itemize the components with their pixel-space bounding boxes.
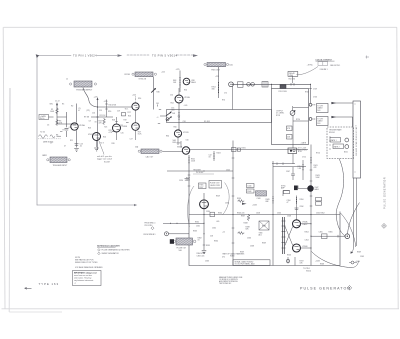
svg-text:C25: C25 <box>121 133 124 135</box>
ground <box>94 148 99 151</box>
connector P380 <box>165 232 169 236</box>
tube V350A <box>293 220 301 228</box>
svg-text:C712: C712 <box>302 157 306 159</box>
wire end tick bottom <box>134 204 137 206</box>
capacitor C365 <box>322 234 328 239</box>
svg-text:R339: R339 <box>262 243 266 245</box>
svg-text:R368: R368 <box>320 264 324 266</box>
svg-text:C15: C15 <box>99 110 102 112</box>
svg-text:C365: C365 <box>319 231 323 233</box>
connector J30 cal out (hatched) <box>50 157 67 163</box>
wire switch A out <box>331 102 353 104</box>
svg-text:PICKOFF: PICKOFF <box>196 172 203 174</box>
capacitor C4 <box>65 112 69 137</box>
svg-text:C333: C333 <box>205 261 209 263</box>
neon B701 <box>288 148 297 154</box>
wire rail to switch <box>310 84 312 103</box>
wire cathode down <box>76 130 78 147</box>
svg-text:R17: R17 <box>128 112 131 114</box>
wire cathodes <box>97 110 136 147</box>
rail x106 <box>106 100 108 118</box>
svg-text:C348: C348 <box>287 216 291 218</box>
tube V334B <box>200 200 209 209</box>
svg-text:C9: C9 <box>50 143 52 145</box>
label box R327 <box>199 183 207 189</box>
connector J50 sync (hatched) <box>135 72 153 77</box>
wire main right rail <box>310 145 312 266</box>
svg-text:+225: +225 <box>215 76 219 78</box>
svg-text:TRIGGER INPUT: TRIGGER INPUT <box>53 165 69 167</box>
svg-text:C384 .005: C384 .005 <box>197 255 205 257</box>
svg-text:C354: C354 <box>305 240 309 242</box>
svg-text:TO CRT: TO CRT <box>317 105 323 107</box>
wire: top feedback run to pin 5 <box>37 55 71 57</box>
resistor R321 on box4 left rail <box>188 157 190 164</box>
svg-text:R68: R68 <box>173 142 176 144</box>
svg-text:C369: C369 <box>360 256 364 258</box>
svg-text:C19: C19 <box>117 111 120 113</box>
wire v347 grid stubs <box>283 191 290 197</box>
resistor R351 column <box>302 160 304 180</box>
wire y171 trigger pickoff <box>167 170 233 172</box>
wire row 117 <box>91 116 113 118</box>
svg-text:R16 470K: R16 470K <box>109 105 117 107</box>
svg-text:R24: R24 <box>103 137 106 139</box>
svg-text:+100V: +100V <box>315 261 321 263</box>
relay K1 (boxed) <box>330 138 341 143</box>
svg-text:TEKTRONIX INC: TEKTRONIX INC <box>219 283 232 285</box>
svg-text:C52: C52 <box>170 95 173 97</box>
svg-text:R19: R19 <box>124 120 127 122</box>
svg-text:TO OUTPUT PANEL JACK: TO OUTPUT PANEL JACK <box>235 263 256 266</box>
tube V5014 <box>183 78 190 85</box>
svg-text:C60: C60 <box>186 140 189 142</box>
label cable harness box <box>233 260 270 266</box>
important box <box>73 271 102 286</box>
svg-text:R330: R330 <box>177 143 181 145</box>
svg-text:PIN 3 R16: PIN 3 R16 <box>145 225 153 227</box>
wire twin rails below delay line <box>354 178 357 248</box>
svg-text:trigger rate switch: trigger rate switch <box>97 158 112 161</box>
svg-text:C330: C330 <box>225 203 229 205</box>
wire rail x233 <box>232 141 234 266</box>
svg-text:+225: +225 <box>104 101 108 103</box>
svg-text:2W: 2W <box>178 116 181 118</box>
resistor R330 <box>180 141 182 148</box>
delay line DL701 (tall box) <box>353 101 361 178</box>
svg-text:R64: R64 <box>166 136 169 138</box>
tube V145B <box>113 124 121 132</box>
svg-text:C347: C347 <box>286 171 290 173</box>
terminator Z380 (dark) <box>170 239 174 244</box>
wire grid node <box>57 117 77 124</box>
resistor R338 zigzag <box>238 232 245 235</box>
svg-text:R334: R334 <box>214 241 218 243</box>
svg-text:R331: R331 <box>242 148 246 150</box>
svg-text:SEE NOTE 1: SEE NOTE 1 <box>330 65 340 67</box>
svg-text:V152A: V152A <box>184 96 190 99</box>
svg-text:FROM: FROM <box>125 74 131 76</box>
svg-text:+225: +225 <box>176 69 180 71</box>
svg-text:C334: C334 <box>206 211 210 213</box>
resistor R48 (+225 rail) <box>179 71 181 93</box>
svg-text:V145A: V145A <box>88 133 94 136</box>
svg-text:+12: +12 <box>222 232 225 234</box>
wire v6 to v7 <box>178 88 180 95</box>
svg-text:W380: W380 <box>230 256 234 258</box>
svg-text:SD 508: SD 508 <box>204 121 210 123</box>
capacitor C19 midleft <box>122 113 126 116</box>
svg-text:47: 47 <box>64 146 66 148</box>
svg-text:R337: R337 <box>241 216 245 218</box>
svg-text:R2: R2 <box>71 106 73 108</box>
capacitor C347 <box>291 167 295 180</box>
wire plate row <box>98 106 132 108</box>
svg-text:RG 63/U: RG 63/U <box>289 78 296 80</box>
svg-text:+225: +225 <box>94 97 98 99</box>
svg-text:R332: R332 <box>195 222 199 224</box>
svg-text:C16: C16 <box>92 113 95 115</box>
wire: left vertical perimeter run <box>36 56 38 206</box>
left margin arrow <box>25 287 32 289</box>
svg-text:V152B: V152B <box>183 132 189 134</box>
svg-text:C706: C706 <box>313 97 317 99</box>
wire h163 <box>272 163 295 165</box>
svg-text:RATE 2: RATE 2 <box>334 145 340 148</box>
wire output row <box>311 235 345 237</box>
connector J1 trigger input (hatched) <box>74 81 92 87</box>
output amp box U2 <box>272 89 309 145</box>
label box to CRO A <box>317 104 329 113</box>
svg-text:C338: C338 <box>250 246 254 248</box>
wire y223 <box>163 222 204 224</box>
capacitor C323 <box>237 148 240 151</box>
svg-text:+GATE: +GATE <box>301 141 307 144</box>
resistor boxed labels on rail <box>316 198 322 201</box>
lamp B502 <box>345 145 349 149</box>
tube V347 (metal, dark) <box>308 186 314 192</box>
resistor R14 to +225 <box>135 97 137 104</box>
svg-text:+105: +105 <box>184 105 188 107</box>
svg-text:.005: .005 <box>216 221 219 223</box>
svg-text:R350: R350 <box>300 199 304 201</box>
svg-text:R365: R365 <box>329 231 333 233</box>
pot arrow upper <box>151 89 155 92</box>
label box trig level <box>209 181 222 189</box>
svg-text:PULSE GENERATING & RECTIFIE: PULSE GENERATING & RECTIFIER <box>102 249 131 252</box>
resistor R324 column <box>213 151 215 161</box>
svg-text:R347: R347 <box>262 226 266 228</box>
svg-text:R8: R8 <box>56 135 58 137</box>
node sel ext arrow <box>56 104 58 124</box>
connector pair P703 <box>262 82 268 88</box>
wire arrowhead to pin5 <box>193 54 198 57</box>
terminator T1 (hatched) <box>259 221 269 230</box>
wire rail x273 <box>272 161 274 266</box>
wire: bottom-left horizontal run <box>37 204 134 206</box>
svg-text:SWEEP GENERATOR: SWEEP GENERATOR <box>102 252 120 255</box>
wire inside u2 <box>293 106 309 148</box>
svg-text:PULSE GENERATOR: PULSE GENERATOR <box>300 287 351 291</box>
ticks on x106 rail <box>105 104 108 109</box>
svg-text:TO PIN 5 V5014: TO PIN 5 V5014 <box>152 53 177 57</box>
svg-text:SEMICONDUCTOR TYPES: SEMICONDUCTOR TYPES <box>75 262 98 264</box>
svg-text:RATE 1: RATE 1 <box>331 139 337 142</box>
svg-text:C350: C350 <box>277 213 281 215</box>
wire long cable curve <box>336 159 345 236</box>
svg-text:R335: R335 <box>206 245 210 247</box>
svg-text:R344: R344 <box>247 191 251 193</box>
wire switch B out <box>331 117 353 127</box>
svg-text:R7: R7 <box>63 130 65 132</box>
svg-text:TD5: TD5 <box>104 127 107 129</box>
svg-text:FROM SWDB 9: FROM SWDB 9 <box>144 234 156 236</box>
C369 connector <box>351 261 354 264</box>
label +GATE IN (boxed) <box>39 115 49 120</box>
tube V350B <box>293 244 301 252</box>
svg-text:R74: R74 <box>222 100 225 102</box>
svg-text:V135A: V135A <box>79 124 85 127</box>
resistor R22 <box>103 118 106 125</box>
svg-text:J1: J1 <box>66 79 68 81</box>
connector J75 trig out (hatched) <box>207 63 226 67</box>
hatched label C340 <box>256 191 267 196</box>
svg-text:TRIG OUT: TRIG OUT <box>211 69 221 71</box>
svg-text:C331: C331 <box>196 226 200 228</box>
svg-text:R701 93Ω: R701 93Ω <box>279 91 288 93</box>
potentiometer arrow <box>166 113 171 116</box>
connector J350 output <box>345 234 350 239</box>
svg-text:V350B: V350B <box>302 246 308 248</box>
svg-text:TD 1: TD 1 <box>125 109 129 111</box>
svg-text:B501: B501 <box>344 152 348 154</box>
resistor R701 <box>280 85 286 89</box>
svg-text:R46: R46 <box>157 92 160 94</box>
resistor R722 (boxed label) <box>287 126 293 131</box>
wire leader curve from note <box>297 67 319 75</box>
resistor R348 <box>247 214 250 221</box>
svg-text:C3: C3 <box>47 125 49 127</box>
wire bus y214 <box>189 214 340 216</box>
connector P701 <box>229 82 234 87</box>
svg-text:R324: R324 <box>217 153 221 155</box>
svg-text:R356: R356 <box>287 255 291 257</box>
ground <box>202 251 207 254</box>
svg-text:.01: .01 <box>80 146 83 148</box>
wire: input lead curve <box>83 88 98 108</box>
svg-text:FIGURE 1: FIGURE 1 <box>320 69 328 71</box>
svg-text:R336: R336 <box>237 198 241 200</box>
wire cable arcs <box>348 203 360 234</box>
junction mark on top run <box>118 54 123 57</box>
diode D345 (dark) <box>294 186 298 191</box>
tube V5024B <box>174 130 181 137</box>
svg-text:R54: R54 <box>171 103 174 105</box>
svg-text:R60: R60 <box>174 127 177 129</box>
svg-text:VOLTAGE READINGS OBTAINED: VOLTAGE READINGS OBTAINED <box>75 266 103 269</box>
svg-text:V334A: V334A <box>177 146 183 149</box>
svg-text:330: 330 <box>212 89 215 91</box>
tube V135B <box>132 103 139 110</box>
svg-text:C1 22: C1 22 <box>55 101 60 103</box>
svg-text:R369: R369 <box>357 252 361 254</box>
svg-text:with H.F. sync the: with H.F. sync the <box>97 155 112 158</box>
svg-text:R334: R334 <box>218 213 222 215</box>
junction ticks <box>291 83 294 86</box>
svg-text:TRIG LEVEL: TRIG LEVEL <box>297 150 307 152</box>
svg-text:R14: R14 <box>138 98 141 100</box>
svg-text:C72: C72 <box>224 93 227 95</box>
bottom components <box>288 257 295 266</box>
callout oval <box>188 186 194 227</box>
resistor R724 (boxed label) <box>287 135 293 140</box>
svg-text:R26: R26 <box>112 143 115 145</box>
gate amp box U1 <box>167 110 272 123</box>
capacitor C5 rail <box>76 104 78 123</box>
svg-text:vary between instruments: vary between instruments <box>74 279 93 282</box>
svg-text:470: 470 <box>222 257 225 259</box>
svg-text:R21 1K: R21 1K <box>100 115 107 117</box>
svg-text:R354: R354 <box>305 232 309 234</box>
capacitor C320 <box>185 179 189 181</box>
svg-text:C709: C709 <box>313 89 317 91</box>
svg-text:C58: C58 <box>183 121 186 123</box>
relay K2 (boxed) <box>333 144 344 149</box>
svg-text:C8: C8 <box>89 121 91 123</box>
svg-text:R720: R720 <box>296 119 300 121</box>
svg-text:PULSE GENERATOR: PULSE GENERATOR <box>384 177 387 209</box>
svg-text:R346 220: R346 220 <box>237 213 244 215</box>
reference diamond <box>151 227 154 230</box>
wire rail down <box>178 103 180 130</box>
svg-text:R327: R327 <box>199 187 203 189</box>
waveform sketch <box>39 135 62 139</box>
svg-text:6AU6: 6AU6 <box>191 81 196 84</box>
svg-text:TO PIN 1 V5024: TO PIN 1 V5024 <box>73 53 97 57</box>
svg-text:+ SYNC: + SYNC <box>307 65 314 67</box>
ground <box>74 149 79 152</box>
svg-text:R9 1M: R9 1M <box>84 117 90 119</box>
svg-text:R348: R348 <box>244 223 248 225</box>
svg-text:R18: R18 <box>112 120 115 122</box>
coax plugs P702 <box>247 83 251 87</box>
svg-text:R705: R705 <box>305 92 309 94</box>
svg-text:47: 47 <box>78 110 80 112</box>
svg-text:C344: C344 <box>247 186 251 188</box>
tube V5024A <box>175 95 183 103</box>
svg-text:SQ 567: SQ 567 <box>104 162 110 164</box>
svg-text:IN 50: IN 50 <box>40 118 44 120</box>
label delay line (boxed) <box>288 72 298 77</box>
svg-text:6AU6: 6AU6 <box>315 188 319 191</box>
svg-text:SYNC IN: SYNC IN <box>139 78 147 80</box>
wire rail x204 <box>203 193 205 250</box>
svg-text:TO CRT: TO CRT <box>317 118 323 120</box>
svg-text:C320: C320 <box>179 180 183 182</box>
potentiometer R718 <box>290 111 295 116</box>
svg-text:.001: .001 <box>171 110 175 112</box>
svg-text:+225: +225 <box>161 71 165 73</box>
label box to CRO B <box>317 117 329 126</box>
svg-text:+1: +1 <box>157 117 159 119</box>
wire main rail B <box>97 99 99 150</box>
tube V334A <box>182 147 189 154</box>
svg-text:R710: R710 <box>316 153 320 155</box>
svg-text:12AU7: 12AU7 <box>302 223 307 226</box>
svg-text:R329: R329 <box>216 196 220 198</box>
resistor R1 <box>56 108 59 115</box>
tube V155 <box>132 123 140 131</box>
node corner tick <box>36 54 39 58</box>
svg-text:R50: R50 <box>184 90 187 92</box>
svg-text:C340: C340 <box>257 198 261 200</box>
svg-text:V5014: V5014 <box>306 270 311 272</box>
resistor R345 (boxed) <box>284 191 290 194</box>
svg-text:C21: C21 <box>120 125 123 127</box>
switch assembly SW501 (dashed) <box>327 127 354 159</box>
resistor R3 <box>56 119 59 126</box>
svg-text:CAL OUT: CAL OUT <box>146 155 155 158</box>
switch SW701 pole A <box>309 103 312 106</box>
wire cross coupling <box>285 227 293 246</box>
resistor R702 rail <box>218 67 220 98</box>
svg-text:R20: R20 <box>128 116 131 118</box>
svg-text:(P1): (P1) <box>87 110 91 112</box>
svg-text:DELAY LINE RG63/U 24FT: DELAY LINE RG63/U 24FT <box>355 124 358 155</box>
svg-text:SW 501: SW 501 <box>329 132 335 134</box>
capacitor C701 <box>238 82 244 88</box>
svg-text:R718: R718 <box>276 115 280 117</box>
svg-text:JMFR: JMFR <box>42 155 47 157</box>
svg-text:R23: R23 <box>88 128 91 130</box>
svg-text:+225: +225 <box>132 94 136 96</box>
output stage box U3 <box>189 155 340 266</box>
label boxes C344 <box>247 184 255 188</box>
wire bus y149 <box>190 149 308 151</box>
svg-text:R11: R11 <box>70 140 73 142</box>
svg-text:TD 3: TD 3 <box>100 143 104 145</box>
wire sync amp plate stub <box>298 186 308 189</box>
capacitor C13 <box>75 144 79 146</box>
wire arrow right <box>242 203 247 205</box>
capacitor C322 <box>232 148 237 152</box>
wire rail from sync <box>153 77 155 110</box>
svg-text:470: 470 <box>99 123 102 125</box>
svg-text:C332: C332 <box>212 228 216 230</box>
tube V145A <box>93 133 101 141</box>
svg-text:+100V: +100V <box>252 205 258 207</box>
svg-text:R16: R16 <box>108 111 111 113</box>
switch SW701 pole B <box>309 118 312 121</box>
svg-text:TYPE 163: TYPE 163 <box>39 282 59 286</box>
wire leader to note <box>99 141 104 155</box>
plate bus (double) <box>283 217 285 254</box>
resistor R353 column <box>296 196 298 220</box>
tube V135A <box>71 123 78 130</box>
svg-text:C336: C336 <box>247 238 251 240</box>
svg-text:SEL: SEL <box>50 104 53 106</box>
connector J380 pulse out (hatched) <box>176 238 193 245</box>
svg-text:TD 50: TD 50 <box>40 132 45 134</box>
svg-text:R339: R339 <box>240 252 244 254</box>
resistor R336 zigzag <box>238 200 245 203</box>
svg-text:C27: C27 <box>130 139 133 141</box>
lamp B501 <box>345 138 349 142</box>
svg-text:C352 R352: C352 R352 <box>316 213 325 215</box>
wire plate stubs <box>301 224 312 248</box>
wire coax row <box>234 83 311 85</box>
svg-text:ADJ: ADJ <box>259 234 262 237</box>
